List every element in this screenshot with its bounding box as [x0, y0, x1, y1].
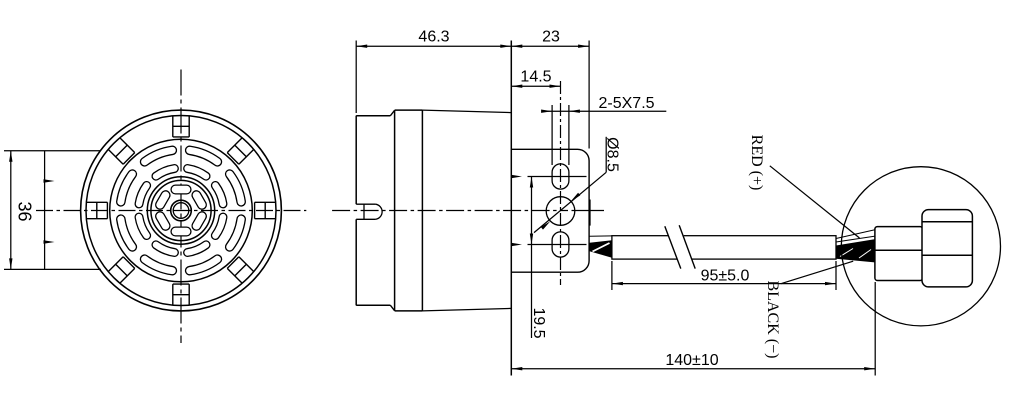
front view mounting tab N — [173, 116, 189, 137]
leader line BLACK — [781, 261, 853, 284]
front view vent boundary circle — [110, 139, 253, 282]
front view mounting tab SW — [108, 257, 135, 284]
front view hub slot 4 — [160, 216, 166, 226]
front view inner vent slot 1 — [215, 185, 223, 203]
svg-text:140±10: 140±10 — [665, 352, 718, 369]
front view inner vent slot 7 — [188, 245, 206, 253]
centerline end tick — [589, 200, 591, 226]
bottom slot horizontal centerline with arrow — [511, 243, 587, 246]
front view inner vent slot 5 — [139, 217, 147, 235]
top slot horizontal centerline with arrow — [511, 175, 587, 178]
left twisted wire bundle — [590, 240, 612, 258]
svg-text:95±5.0: 95±5.0 — [701, 268, 750, 285]
dimension 2-5X7.5 (slots) — [541, 95, 666, 165]
front view hub slot 5 — [175, 227, 186, 237]
front view slot-ring outer circle — [147, 177, 214, 244]
dimension 14.5 — [511, 69, 560, 88]
front view outer vent slot 4 — [121, 174, 133, 202]
main horizontal centerline (front and side views) — [36, 210, 604, 212]
flange hole vertical centerline — [560, 81, 562, 285]
flange bottom slot 5x7.5 — [552, 232, 569, 257]
label BLACK (-) — [764, 281, 781, 359]
svg-text:36: 36 — [15, 201, 35, 221]
front view inner vent slot 2 — [188, 169, 206, 177]
front view hub slot 2 — [175, 185, 186, 195]
label RED (+) — [748, 135, 765, 191]
dimension d8.5 leader — [534, 137, 621, 233]
front view outer vent slot 6 — [145, 259, 173, 271]
front view slot-height reference line with arrows — [44, 151, 55, 270]
front view mounting tab NE — [227, 138, 254, 165]
front view vertical centerline — [180, 70, 182, 344]
side view body rear edge line — [510, 41, 512, 376]
front view outer vent slot 8 — [230, 219, 242, 247]
dimension 36 (front view height) — [4, 151, 101, 270]
dimension 95±5.0 (cable) — [612, 261, 836, 290]
leader line RED — [770, 166, 860, 238]
front view outer vent slot 1 — [230, 174, 242, 202]
connector housing (outer) — [922, 210, 972, 287]
front view outer vent slot 3 — [145, 150, 173, 162]
front view outer rim circle — [81, 110, 282, 311]
svg-text:Ø8.5: Ø8.5 — [604, 137, 621, 172]
front view mounting tab SE — [227, 257, 254, 284]
front view inner vent slot 8 — [215, 217, 223, 235]
front view outer vent slot 5 — [121, 219, 133, 247]
mounting flange outline — [511, 149, 589, 272]
front view hub slot 1 — [196, 195, 202, 205]
cable sleeve — [612, 236, 836, 259]
dimension 46.3 — [356, 29, 511, 114]
front view slot-ring inner circle — [151, 180, 211, 240]
front view mounting tab W — [86, 202, 107, 218]
front view hub inner circle — [173, 203, 189, 219]
front view inner vent slot 4 — [139, 185, 147, 203]
front view inner vent slot 6 — [156, 245, 174, 253]
side view front lug (D-shaped tab) — [356, 204, 382, 219]
dimension 19.5 (slot spacing) — [530, 177, 547, 339]
svg-text:14.5: 14.5 — [520, 69, 551, 86]
front view hub slot 6 — [196, 216, 202, 226]
front view hub slot 3 — [160, 195, 166, 205]
front view hub outer circle — [171, 200, 192, 221]
front view mounting tab NW — [108, 138, 135, 165]
detail view circle — [841, 167, 1000, 326]
connector housing (inner) — [875, 227, 923, 281]
flange centre hole d8.5 — [546, 197, 575, 226]
svg-text:2-5X7.5: 2-5X7.5 — [599, 95, 655, 112]
left wire outline — [590, 235, 612, 237]
front view mounting tab S — [173, 284, 189, 305]
svg-text:19.5: 19.5 — [530, 307, 547, 338]
front view mounting tab E — [255, 202, 276, 218]
svg-text:46.3: 46.3 — [418, 29, 449, 46]
dimension 140±10 (overall) — [511, 282, 875, 376]
front view outer vent slot 7 — [190, 259, 218, 271]
dimension 23 — [511, 29, 589, 149]
svg-text:RED (+): RED (+) — [748, 135, 765, 191]
right twisted wire bundle — [836, 230, 876, 263]
svg-text:23: 23 — [542, 29, 560, 46]
front view inner rim circle — [86, 116, 276, 306]
svg-text:BLACK (−): BLACK (−) — [764, 281, 781, 359]
cable break marks — [665, 224, 696, 271]
flange top slot 5x7.5 — [552, 164, 569, 189]
front view inner vent slot 3 — [156, 169, 174, 177]
side view body outline — [356, 110, 511, 311]
front view outer vent slot 2 — [190, 150, 218, 162]
